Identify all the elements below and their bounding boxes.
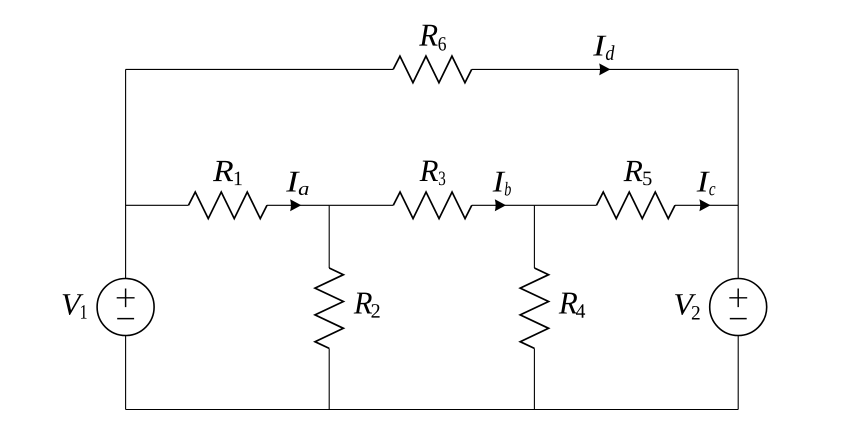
label Ic [697,172,716,196]
V2 plus sign [729,289,747,308]
label R2 [354,293,380,318]
wire bottom rail [126,409,739,411]
label V2 [675,294,700,319]
label Ia [286,172,308,195]
wire R4 branch lower [533,348,535,409]
wire top rail left segment [126,68,394,70]
wire middle rail seg5 node B to R5 [534,204,596,206]
wire middle rail seg3 node A to R3 [329,204,393,206]
wire right rail lower [737,336,739,410]
label R1 [213,161,242,185]
current arrow Ib head [495,199,506,211]
resistor R2 zigzag [315,268,343,348]
label R4 [559,293,585,318]
resistor R1 zigzag [189,192,268,219]
label V1 [63,294,87,318]
voltage source V1 circle [97,279,154,336]
resistor R5 zigzag [597,192,676,219]
wire left rail upper [125,69,127,278]
label R3 [420,161,446,186]
resistor R6 zigzag [393,56,472,83]
resistor R4 zigzag [520,268,548,348]
wire right rail upper [737,69,739,278]
V1 minus sign [117,318,134,320]
wire R2 branch lower [328,348,330,409]
wire middle rail seg4 carrying Ib [472,204,535,206]
label R5 [624,161,652,185]
wire middle rail seg1 [126,204,189,206]
current arrow Id head [599,63,610,75]
label Ib [493,172,511,196]
current arrow Ia head [290,199,301,211]
V2 minus sign [730,318,747,320]
wire top rail right segment [472,68,739,70]
label R6 [419,25,446,51]
label Id [593,36,614,60]
current arrow Ic head [699,199,710,211]
voltage source V2 circle [710,279,767,336]
wire middle rail seg2 carrying Ia [267,204,329,206]
wire R4 branch upper [533,205,535,268]
V1 plus sign [117,289,135,308]
wire R2 branch upper [328,205,330,268]
wire middle rail seg6 carrying Ic [675,204,738,206]
resistor R3 zigzag [393,192,472,219]
wire left rail lower [125,336,127,410]
